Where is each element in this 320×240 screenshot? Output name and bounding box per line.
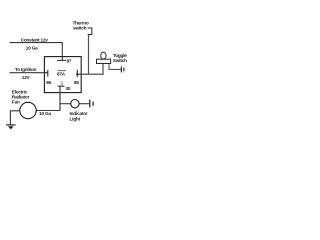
pin 87A terminal bbox=[57, 70, 66, 72]
ground G1 (two-bar) bbox=[120, 67, 122, 73]
svg-text:12V: 12V bbox=[22, 75, 31, 80]
pin 30 terminal bbox=[61, 82, 63, 87]
svg-text:30: 30 bbox=[66, 86, 71, 91]
wire: fan to ground bbox=[10, 111, 19, 125]
toggle switch lever bbox=[101, 52, 106, 59]
svg-text:Light: Light bbox=[70, 117, 81, 122]
wire: pin 30 down to fan bbox=[59, 86, 61, 110]
toggle switch S1 body bbox=[97, 59, 111, 63]
svg-text:Fan: Fan bbox=[12, 99, 20, 104]
ground G2 (earth with pad) bbox=[6, 124, 16, 126]
wire: thermo switch down to pin 85 net bbox=[88, 35, 90, 75]
svg-text:85: 85 bbox=[74, 80, 79, 85]
ground G3 (two-bar) bbox=[89, 100, 91, 108]
pin 86 terminal bbox=[44, 72, 47, 74]
svg-text:Constant 12v: Constant 12v bbox=[21, 37, 49, 42]
wire: pin 85 to toggle switch bbox=[77, 64, 103, 75]
indicator light DS1 bbox=[71, 100, 79, 108]
fan motor M1 bbox=[20, 102, 36, 118]
svg-text:switch: switch bbox=[73, 26, 87, 31]
svg-text:Switch: Switch bbox=[113, 58, 127, 63]
wire: pin 30 net branch to indicator light bbox=[60, 103, 71, 105]
wire: ignition feed to pin 86 bbox=[10, 72, 48, 74]
pin 87 terminal bbox=[57, 59, 66, 61]
thermo switch TS1 (bracket contact symbol) bbox=[88, 28, 92, 35]
svg-text:87: 87 bbox=[67, 59, 72, 64]
wire: toggle switch to ground bbox=[109, 64, 121, 70]
svg-text:10 Ga: 10 Ga bbox=[26, 45, 38, 50]
wire: indicator light to ground bbox=[79, 103, 89, 105]
svg-text:10 Ga: 10 Ga bbox=[39, 111, 51, 116]
node: pin85 junction dot bbox=[76, 73, 78, 75]
relay K1 (box) bbox=[44, 57, 81, 93]
wire: constant 12v feed to relay pin 87 bbox=[10, 43, 63, 61]
svg-text:Indicator: Indicator bbox=[70, 111, 88, 116]
svg-text:To Ignition: To Ignition bbox=[15, 67, 37, 72]
svg-text:87A: 87A bbox=[57, 72, 66, 77]
pin 85 terminal bbox=[76, 70, 78, 77]
wire: fan feed horizontal bbox=[36, 110, 60, 112]
svg-text:86: 86 bbox=[46, 80, 51, 85]
